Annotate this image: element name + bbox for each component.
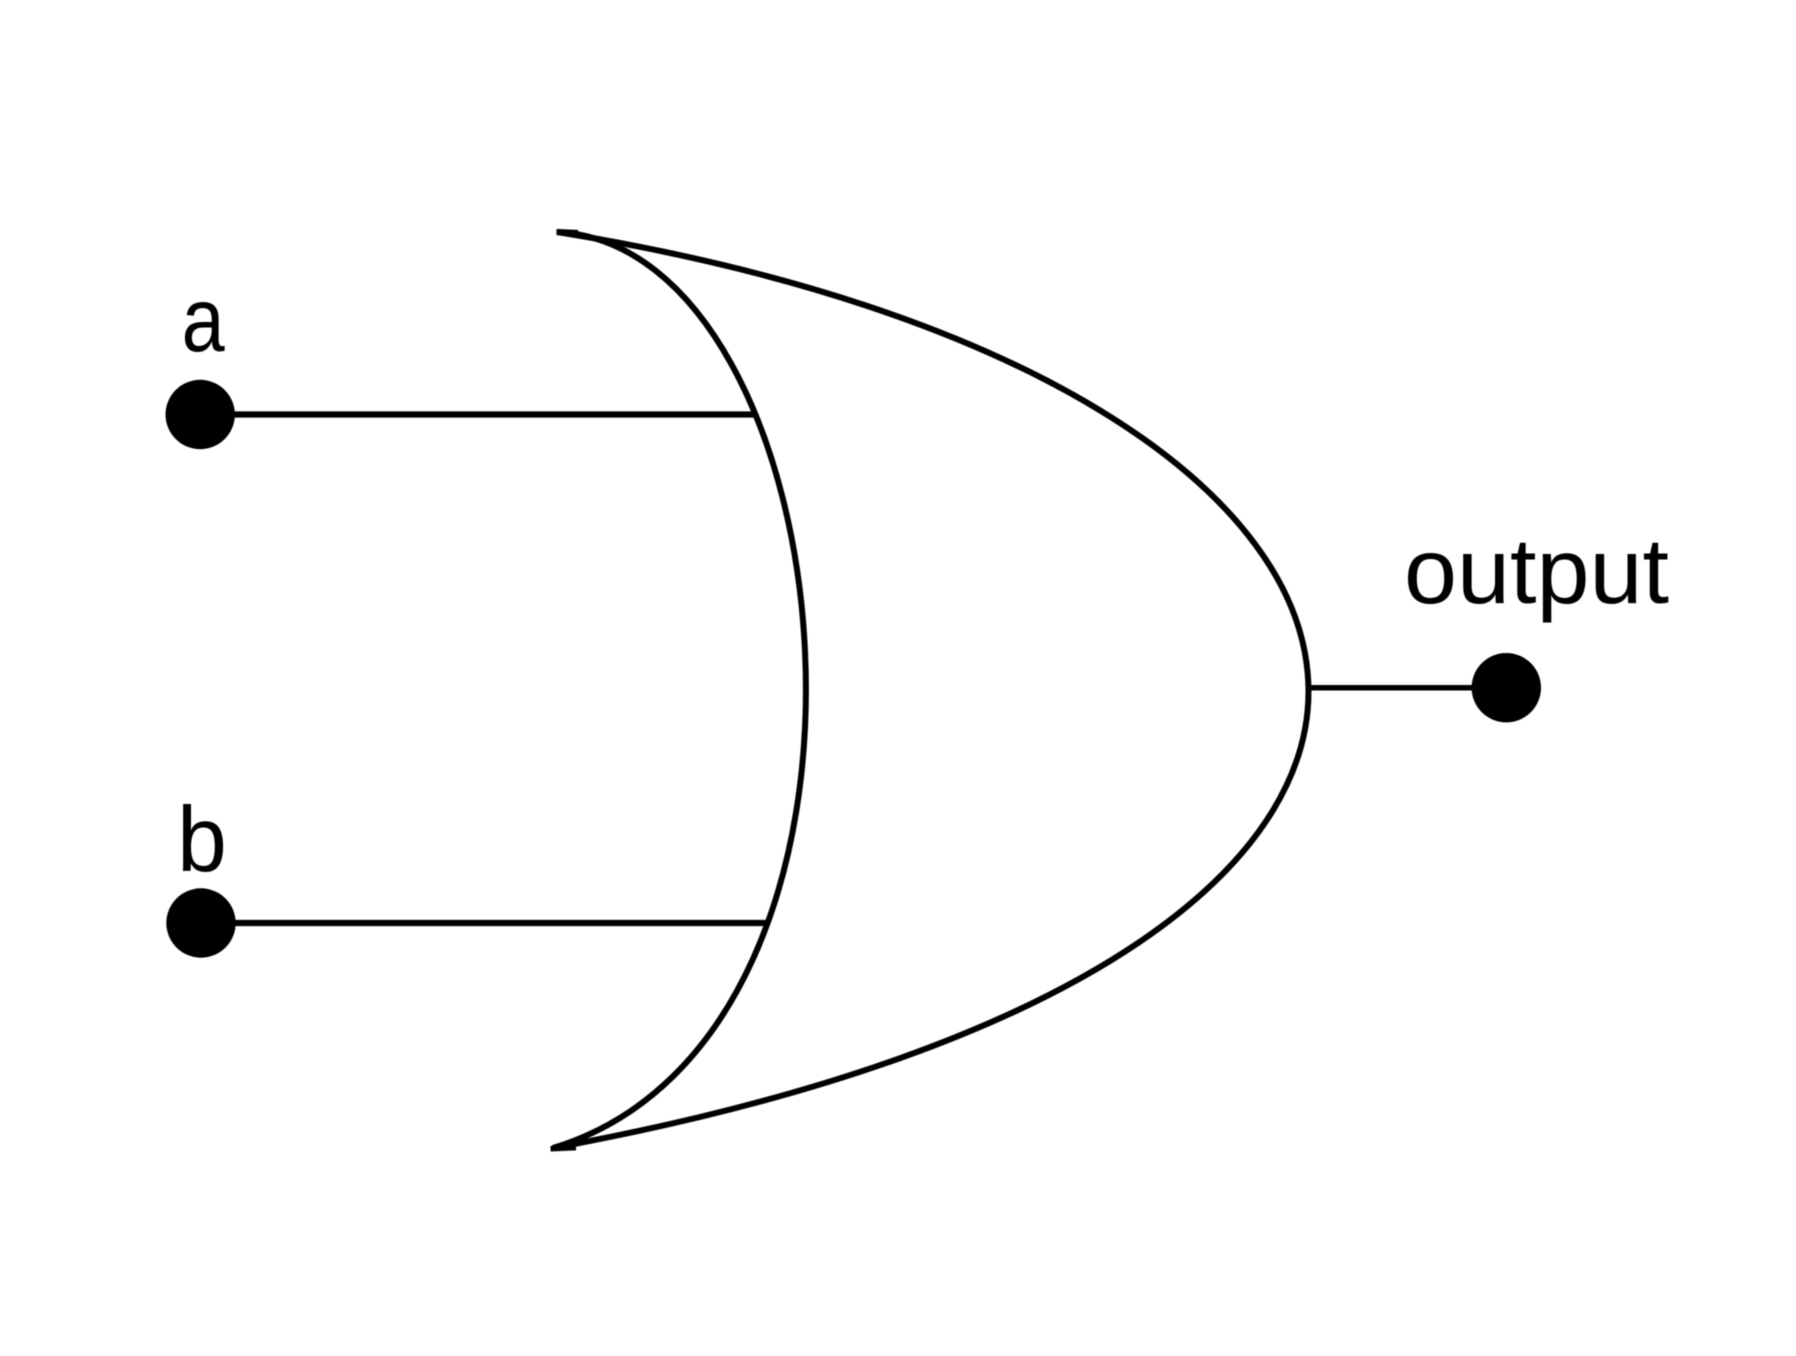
node output terminal	[1472, 653, 1541, 722]
node b terminal	[166, 888, 235, 957]
bottom tip tail of gate	[551, 1148, 577, 1149]
wire input a	[233, 411, 755, 417]
top tip tail of gate	[557, 229, 579, 235]
svg-text:b: b	[177, 788, 227, 892]
OR gate U1 inner (back) edge	[553, 232, 806, 1148]
wire input b	[233, 920, 767, 926]
OR gate U1 outer edge	[553, 232, 1308, 1148]
svg-text:a: a	[182, 270, 225, 371]
svg-text:output: output	[1404, 519, 1669, 623]
node a terminal	[166, 380, 235, 449]
wire output	[1306, 685, 1474, 691]
